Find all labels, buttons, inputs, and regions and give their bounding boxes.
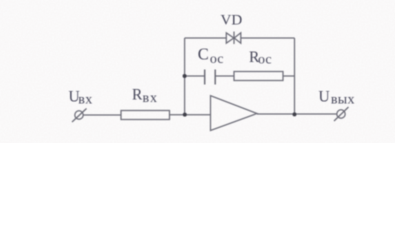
svg-text:R: R [132, 87, 143, 104]
svg-text:C: C [198, 45, 209, 64]
svg-text:вх: вх [78, 92, 93, 107]
svg-text:вых: вых [331, 93, 355, 108]
svg-text:VD: VD [221, 13, 243, 29]
svg-text:ос: ос [210, 52, 224, 67]
svg-text:вх: вх [143, 91, 158, 106]
svg-text:U: U [319, 88, 330, 105]
svg-text:ос: ос [258, 52, 272, 67]
